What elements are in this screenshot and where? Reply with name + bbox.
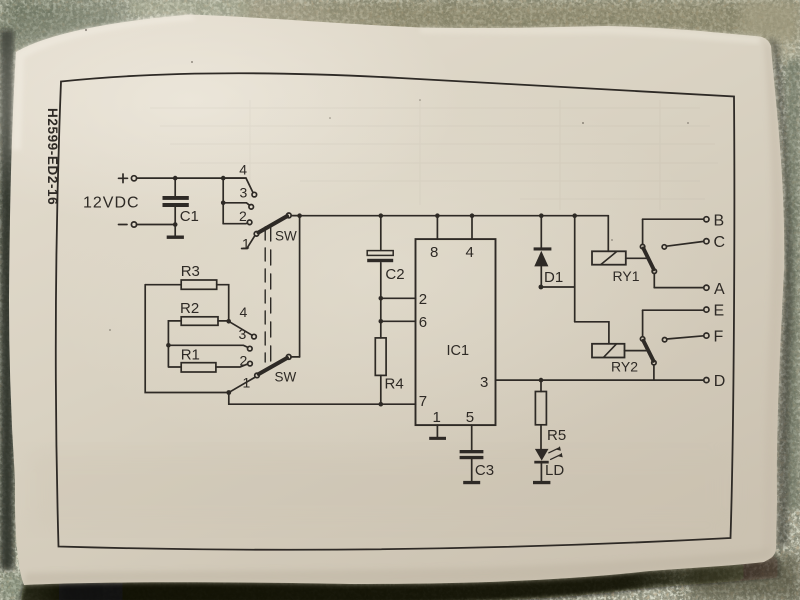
svg-text:1: 1 [242,236,250,252]
wire blade to bus [291,215,299,217]
svg-text:8: 8 [430,244,438,261]
switch SW pole2 contact 2 [248,361,253,366]
node pin2 branch [379,296,384,301]
svg-text:3: 3 [480,374,488,391]
wire RY1 coil to armature [626,257,648,259]
wire E line [643,309,704,311]
node D1 anode [539,285,544,290]
wire F line [667,336,704,339]
svg-text:2: 2 [240,353,248,369]
resistor R5 [535,392,546,425]
ground C3 [463,481,480,484]
relay RY2 coil [592,344,625,358]
terminal B [704,217,709,222]
node bus left [297,213,302,218]
wire pin1 [436,425,438,437]
svg-text:R3: R3 [181,263,200,280]
switch SW pole1 contact 2 [223,222,247,225]
svg-text:SW: SW [275,229,297,244]
wire + rail to switch [137,177,246,179]
switch SW pole1 blade [259,216,288,232]
wire C line [667,241,704,246]
svg-text:B: B [714,212,725,229]
minus terminal circle [131,222,136,227]
contact C [662,245,666,249]
switch SW pole1 contact 4 [223,178,253,193]
switch SW pole2 contact 1 stub [230,377,255,392]
node C1 top [173,176,178,181]
LED LD [534,446,562,481]
switch SW pole1 contact 3 [223,203,249,206]
node D1 top [539,213,544,218]
wire RY2 coil to armature [625,350,648,352]
minus terminal symbol [119,224,128,226]
wire pin6 stub [381,320,416,322]
svg-text:R4: R4 [385,376,404,393]
border frame [56,73,735,550]
ground LD [533,481,550,484]
svg-text:F: F [714,329,724,346]
svg-text:4: 4 [240,304,248,320]
node relay rail [572,213,577,218]
relay RY2 blade [643,341,653,361]
relay RY2 switch pivot [640,337,644,341]
resistor R1 [181,363,216,372]
svg-text:4: 4 [466,244,474,261]
countertop regional tints [240,0,800,40]
svg-text:IC1: IC1 [447,343,470,359]
wire blade2 to D line [653,365,655,380]
paper drop shadow right [766,37,792,548]
svg-text:LD: LD [545,462,564,479]
svg-text:4: 4 [239,162,247,178]
svg-text:H2599-ED2-16: H2599-ED2-16 [45,108,60,205]
svg-text:A: A [714,281,725,298]
node pin6 branch [379,319,384,324]
node R2R1 left [166,343,171,348]
wire minus to C1 [137,224,176,226]
contact F [662,338,666,342]
diode D1 [534,216,552,287]
wire bottom bus [229,393,416,405]
node pin8 top [435,213,440,218]
svg-text:D1: D1 [544,269,563,286]
wire bus corner to RY1 coil [607,216,609,252]
switch SW pole1 contact 1 stub [242,236,255,249]
svg-text:RY1: RY1 [613,268,640,284]
ghost print showing through paper [150,100,718,210]
svg-text:6: 6 [419,314,427,331]
svg-text:R2: R2 [180,300,199,317]
wire A line [654,287,703,289]
wire left bracket [145,285,229,393]
svg-text:5: 5 [466,409,474,426]
node contact4 lower [226,319,231,324]
mechanical linkage dashed [264,227,266,362]
svg-text:C3: C3 [475,462,494,479]
svg-text:RY2: RY2 [611,359,638,375]
node pin4 top [470,213,475,218]
svg-text:1: 1 [433,409,441,426]
node C1 minus [173,222,178,227]
svg-text:1: 1 [243,375,251,391]
terminal A [704,285,709,290]
wire pin4 [471,216,473,239]
svg-text:C1: C1 [180,208,199,225]
svg-text:12VDC: 12VDC [83,195,140,212]
terminal D [704,378,709,383]
node switch column top [221,176,226,181]
svg-text:C: C [714,234,726,251]
terminal C [704,239,709,244]
node bottom bus left [226,390,231,395]
svg-text:7: 7 [419,393,427,410]
wire blade to A line [653,274,655,288]
ground pin1 [429,437,446,440]
wire pin2 stub [381,297,416,299]
svg-text:SW: SW [275,370,297,385]
svg-text:R5: R5 [547,427,566,444]
relay RY1 switch pivot [640,244,644,248]
wire pole1 to pole2 [299,216,301,357]
wire rail to RY2 coil [575,322,609,344]
wire B line [643,218,704,220]
capacitor C3 [460,450,484,481]
svg-text:3: 3 [240,185,248,201]
svg-text:C2: C2 [385,266,404,283]
svg-text:D: D [714,373,726,390]
wire pin3 output [496,379,704,381]
paper lighting overlays [0,0,460,230]
relay RY1 coil [592,251,626,264]
switch SW pole2 contact 3 [168,345,247,347]
switch SW pole2 blade [259,358,287,374]
capacitor C2 [367,216,393,338]
ground C1 [167,236,184,239]
terminal E [704,307,709,312]
svg-text:3: 3 [239,326,247,342]
wire pin5 [471,425,473,450]
wire relay rail vertical [574,216,576,322]
switch SW pole2 contact 4 [229,321,253,335]
op IC1 box [416,239,496,425]
terminal F [704,333,709,338]
wire switch column [222,178,224,224]
resistor R4 [375,338,386,376]
node R5 top [539,378,544,383]
dust specks [85,29,689,331]
resistor R2 [181,317,218,326]
svg-text:2: 2 [239,208,247,224]
capacitor C1 [163,178,189,236]
node contact3 [221,201,226,206]
paper drop shadow bottom [0,0,1,1]
plus terminal symbol [119,174,128,183]
wire top bus [300,215,609,217]
wire blade2 to vertical [291,356,300,358]
wire pin8 [436,216,438,239]
node R4 bottom [379,402,384,407]
svg-text:E: E [714,303,725,320]
node C2 top [379,213,384,218]
svg-text:R1: R1 [181,347,200,364]
wire D1 to rail [541,286,575,288]
relay RY1 blade [643,248,653,269]
svg-text:2: 2 [419,291,427,308]
resistor R3 [181,280,217,289]
plus terminal circle [131,176,136,181]
